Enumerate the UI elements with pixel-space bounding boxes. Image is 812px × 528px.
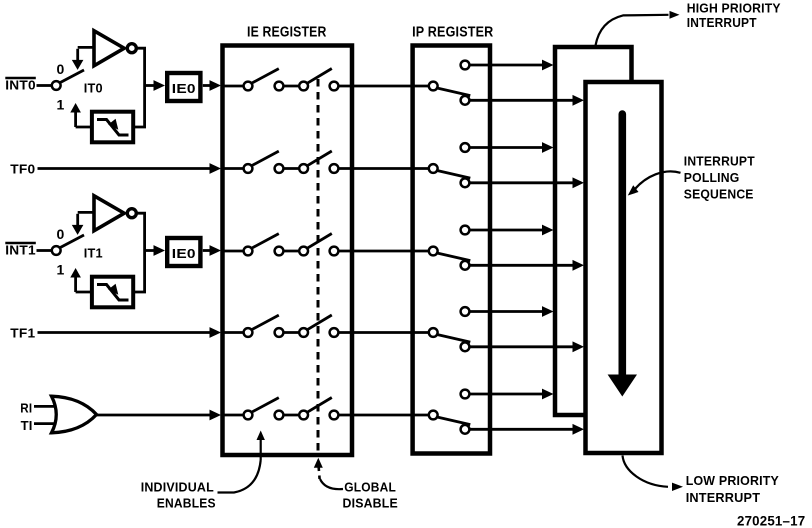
wire TF0 to IE register bbox=[38, 163, 222, 174]
svg-text:IT0: IT0 bbox=[84, 80, 103, 95]
interrupt flag IE0 box bbox=[167, 73, 200, 101]
pointer to global disable line bbox=[314, 458, 343, 489]
svg-text:IE REGISTER: IE REGISTER bbox=[247, 25, 327, 41]
OR gate (RI + TI) bbox=[52, 396, 97, 433]
pointer to polling arrow bbox=[628, 171, 681, 195]
wire OR gate output to IE register bbox=[97, 410, 222, 421]
svg-text:IT1: IT1 bbox=[84, 245, 103, 260]
wire low-priority, row RI+TI bbox=[469, 424, 584, 435]
pointer to individual enables switch bbox=[218, 431, 265, 493]
node INT1 input label bbox=[5, 242, 36, 257]
label INDIVIDUAL ENABLES bbox=[141, 479, 216, 510]
label HIGH PRIORITY INTERRUPT bbox=[687, 0, 781, 29]
edge detector (1-to-0 transition) for INT1 bbox=[92, 277, 133, 308]
global disable switch, row TF0 bbox=[299, 151, 338, 173]
svg-text:TI: TI bbox=[21, 418, 33, 433]
svg-text:INT1: INT1 bbox=[5, 242, 36, 257]
falling edge symbol bbox=[97, 119, 129, 135]
switch IT0 pole bbox=[52, 70, 84, 90]
svg-text:INTERRUPT: INTERRUPT bbox=[684, 154, 755, 169]
svg-text:270251–17: 270251–17 bbox=[737, 512, 805, 528]
priority select switch, row RI+TI bbox=[429, 390, 470, 434]
low priority / polling box bbox=[586, 82, 662, 453]
wire INT0 to switch pole bbox=[37, 84, 52, 87]
wire high-priority, row RI+TI bbox=[469, 389, 553, 400]
global disable dashed net bbox=[317, 79, 320, 455]
pointer to HIGH PRIORITY INTERRUPT bbox=[596, 11, 680, 46]
interrupt polling sequence arrow bbox=[608, 114, 637, 397]
wire to IE0 flag with arrow bbox=[145, 80, 165, 91]
wire high-priority, row TF0 bbox=[469, 142, 553, 153]
label GLOBAL DISABLE bbox=[343, 479, 399, 510]
svg-text:ENABLES: ENABLES bbox=[157, 496, 216, 511]
high priority box bbox=[555, 47, 632, 415]
svg-text:TF1: TF1 bbox=[10, 325, 35, 340]
wire IE1 flag to IE register bbox=[203, 245, 221, 256]
wire TF1 to IE register bbox=[38, 327, 222, 338]
inverter buffer for INT1 bbox=[94, 196, 124, 231]
svg-text:0: 0 bbox=[57, 226, 65, 242]
global disable switch, row RI+TI bbox=[299, 398, 338, 420]
wire IE row INT0/IE0 bbox=[223, 85, 430, 88]
svg-text:IP REGISTER: IP REGISTER bbox=[412, 25, 494, 41]
wire RI to OR gate bbox=[34, 405, 57, 408]
wire INT1 to switch pole bbox=[37, 249, 52, 252]
wire IE row INT1/IE1 bbox=[223, 250, 430, 253]
falling edge symbol bbox=[97, 284, 129, 300]
wire low-priority, row TF0 bbox=[469, 177, 584, 188]
label INTERRUPT POLLING SEQUENCE bbox=[684, 154, 755, 202]
pointer to LOW PRIORITY INTERRUPT bbox=[623, 456, 684, 492]
svg-text:1: 1 bbox=[57, 261, 65, 277]
svg-text:SEQUENCE: SEQUENCE bbox=[684, 187, 754, 202]
wire high-priority, row INT1/IE1 bbox=[469, 225, 553, 236]
priority select switch, row INT1/IE1 bbox=[429, 226, 470, 270]
label LOW PRIORITY INTERRUPT bbox=[686, 473, 779, 505]
svg-text:INTERRUPT: INTERRUPT bbox=[687, 15, 757, 30]
svg-text:HIGH PRIORITY: HIGH PRIORITY bbox=[687, 0, 781, 15]
svg-text:IE0: IE0 bbox=[172, 82, 196, 96]
svg-text:GLOBAL: GLOBAL bbox=[344, 479, 396, 494]
inverter output bubble bbox=[127, 209, 136, 218]
wire to IE1 flag with arrow bbox=[145, 245, 165, 256]
wire IE row TF0 bbox=[223, 167, 430, 170]
wire low-priority, row TF1 bbox=[469, 341, 584, 352]
wire edge-mode contact down to edge detector input bbox=[70, 268, 92, 292]
wire low-priority, row INT1/IE1 bbox=[469, 260, 584, 271]
priority select switch, row TF0 bbox=[429, 143, 470, 187]
svg-text:INT0: INT0 bbox=[5, 77, 36, 92]
svg-text:RI: RI bbox=[20, 401, 32, 416]
inverter output bubble bbox=[127, 44, 136, 53]
svg-text:INDIVIDUAL: INDIVIDUAL bbox=[141, 479, 214, 494]
wire level-mode contact to inverter input bbox=[72, 47, 94, 70]
wire edge-mode contact down to edge detector input bbox=[70, 103, 92, 127]
global disable switch, row INT1/IE1 bbox=[299, 234, 338, 256]
svg-text:LOW PRIORITY: LOW PRIORITY bbox=[686, 473, 779, 488]
IP register box bbox=[413, 46, 490, 454]
wire level-mode contact to inverter input bbox=[72, 212, 94, 235]
wire high-priority, row TF1 bbox=[469, 306, 553, 317]
wire IE row RI+TI bbox=[223, 414, 430, 417]
individual enable switch, row TF1 bbox=[244, 315, 284, 337]
priority select switch, row INT0/IE0 bbox=[429, 61, 470, 105]
wire inverter output down to edge detector output bbox=[133, 48, 145, 127]
wire TI to OR gate bbox=[34, 422, 57, 425]
interrupt flag IE1 box bbox=[167, 238, 200, 266]
svg-text:TF0: TF0 bbox=[10, 161, 35, 176]
svg-text:1: 1 bbox=[57, 96, 65, 112]
wire IE row TF1 bbox=[223, 331, 430, 334]
svg-text:IE0: IE0 bbox=[172, 247, 196, 261]
inverter buffer for INT0 bbox=[94, 31, 124, 66]
wire low-priority, row INT0/IE0 bbox=[469, 95, 584, 106]
IE register box bbox=[223, 46, 353, 456]
svg-text:INTERRUPT: INTERRUPT bbox=[686, 490, 761, 505]
wire inverter output down to edge detector output bbox=[133, 213, 145, 292]
individual enable switch, row RI+TI bbox=[244, 398, 284, 420]
svg-text:0: 0 bbox=[57, 61, 65, 77]
wire IE0 flag to IE register bbox=[203, 80, 221, 91]
global disable switch, row INT0/IE0 bbox=[299, 69, 338, 91]
wire high-priority, row INT0/IE0 bbox=[469, 60, 553, 71]
svg-text:POLLING: POLLING bbox=[684, 170, 740, 185]
switch IT1 pole bbox=[52, 235, 84, 255]
individual enable switch, row INT0/IE0 bbox=[244, 69, 284, 91]
individual enable switch, row TF0 bbox=[244, 151, 284, 173]
svg-text:DISABLE: DISABLE bbox=[343, 496, 399, 511]
node INT0 input label bbox=[5, 77, 36, 92]
edge detector (1-to-0 transition) for INT0 bbox=[92, 112, 133, 143]
priority select switch, row TF1 bbox=[429, 307, 470, 351]
global disable switch, row TF1 bbox=[299, 315, 338, 337]
individual enable switch, row INT1/IE1 bbox=[244, 234, 284, 256]
